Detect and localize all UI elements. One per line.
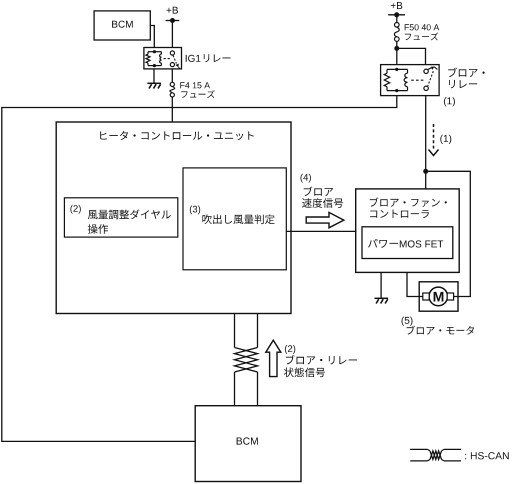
wire: fuse F50 to junction — [396, 41, 398, 64]
wire: controller to ground — [380, 272, 382, 298]
ground (controller) — [375, 297, 389, 299]
fuse F50 (F50 40 A フューズ) — [394, 27, 399, 37]
HS-CAN bus: heater unit to BCM (twisted pair) — [234, 314, 236, 348]
wire: BCM relay-drive loop (left side) — [2, 96, 397, 442]
node: junction (controller/motor supply) — [423, 169, 428, 174]
controller box ブロア・ファン・コントローラ — [356, 189, 460, 273]
block (2) 風量調整ダイヤル操作 — [64, 198, 177, 237]
label (2) ブロア・リレー状態信号 — [285, 345, 295, 354]
relay: blower relay (ブロア・リレー) — [381, 65, 440, 96]
fuse F4 (F4 15 A フューズ) — [170, 87, 175, 93]
label ブロア・リレー (1) — [448, 68, 485, 77]
relay coil (IG1: resistor + inductor) — [148, 51, 161, 53]
label (5) ブロア・モータ — [402, 317, 413, 326]
wire: blower speed signal (unit to controller) — [286, 230, 356, 232]
ground (IG1 relay coil) — [147, 82, 161, 84]
node: +B junction (IG1) — [170, 18, 175, 23]
wire: blower relay switch to controller — [425, 96, 427, 189]
relay coil (blower relay: resistor + inductor) — [387, 68, 408, 70]
wire: controller output to motor — [407, 272, 423, 296]
BCM (top body control module) — [94, 11, 150, 40]
legend label : HS-CAN — [465, 452, 509, 459]
wire: top BCM output to IG1 relay coil — [150, 26, 154, 48]
flow arrow (2) up (relay status to unit) — [266, 340, 281, 376]
motor M (blower motor) — [419, 282, 458, 311]
power +B (feeds IG1 relay) — [167, 7, 179, 14]
relay contact (IG1 switch) — [170, 51, 174, 55]
dashed actuation link (IG1) — [164, 58, 171, 60]
wire: IG1 switch to fuse F4 — [171, 69, 173, 83]
node: junction below F50 — [394, 46, 399, 51]
label IG1リレー — [186, 55, 201, 62]
heater control unit box (ヒータ・コントロール・ユニット) — [56, 122, 291, 314]
legend: HS-CAN twisted pair symbol — [410, 448, 427, 450]
relay IG1 (IG1リレー) — [144, 48, 182, 69]
wire: IG1 coil to ground — [153, 69, 155, 83]
wire: junction to blower relay switch — [397, 48, 426, 64]
label (4) ブロア速度信号 — [301, 174, 311, 183]
wire: +B to fuse F50 — [396, 15, 398, 23]
flow arrow (4) right — [306, 212, 344, 227]
wire: junction to blower motor (right branch) — [426, 171, 471, 296]
wire: fuse F4 to heater control unit — [171, 97, 173, 122]
flow arrow (1) dashed down — [433, 124, 435, 149]
BCM (bottom body control module) — [195, 406, 301, 482]
block (3) 吹出し風量判定 — [183, 168, 286, 270]
power +B (feeds blower relay) — [391, 2, 403, 9]
block パワーMOS FET — [362, 227, 453, 259]
dashed actuation link (blower relay) — [411, 79, 424, 81]
wire: +B to IG1 relay switch — [171, 21, 173, 48]
node: +B junction (blower) — [394, 12, 399, 17]
relay contact (blower relay switch) — [424, 69, 428, 73]
